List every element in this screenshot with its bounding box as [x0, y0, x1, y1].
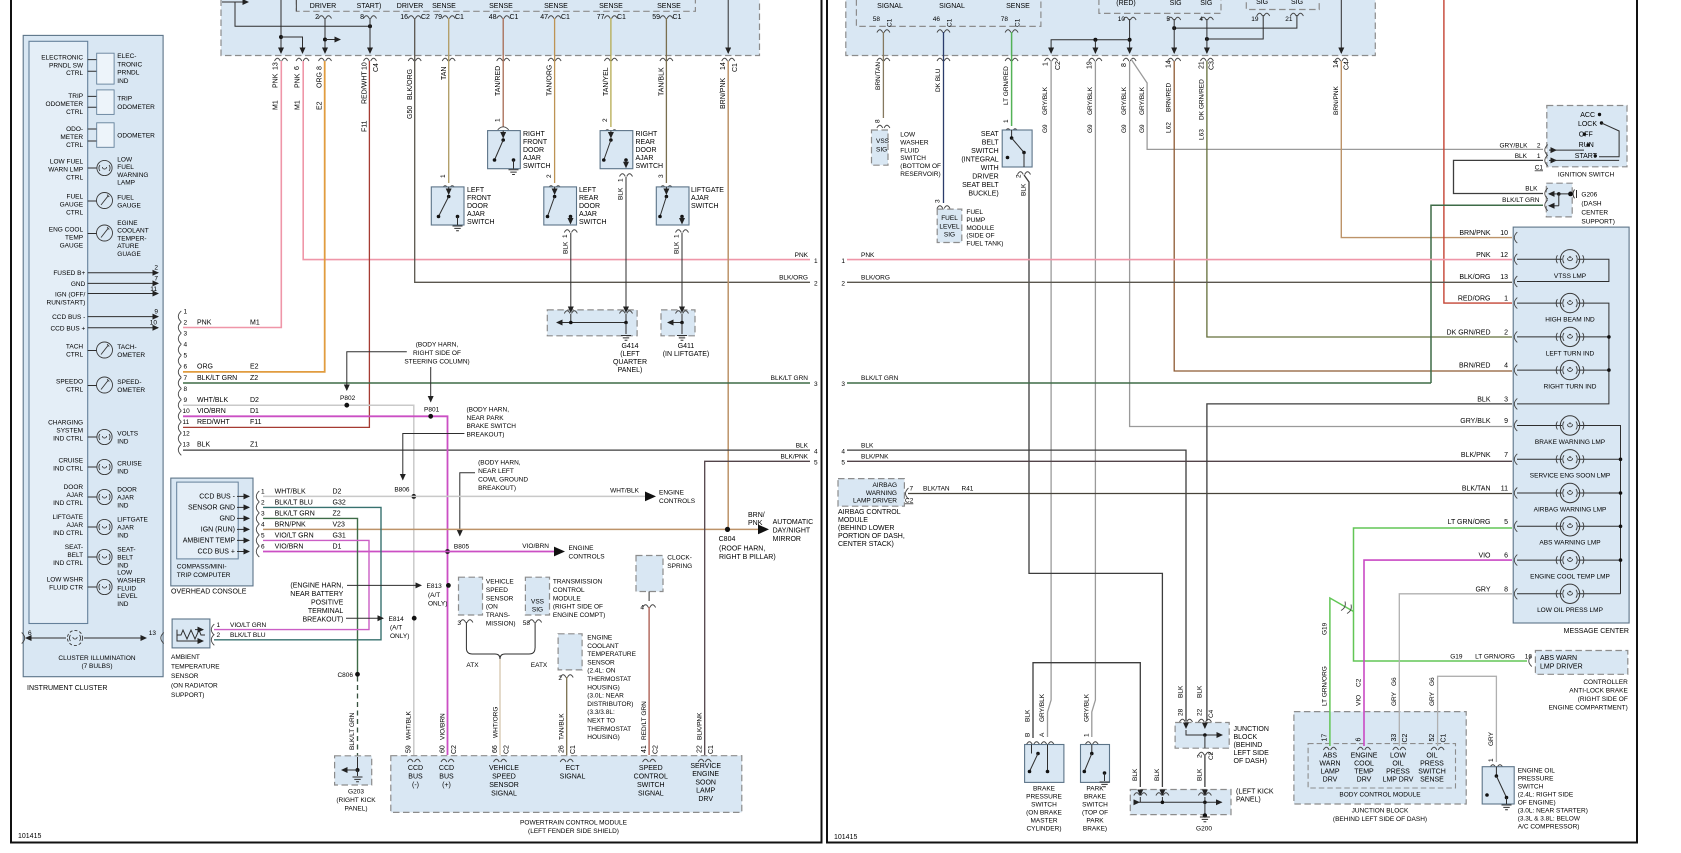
svg-text:RUN/START): RUN/START) — [47, 299, 86, 306]
svg-text:BLK: BLK — [1025, 709, 1032, 722]
svg-text:F11: F11 — [250, 419, 262, 426]
svg-text:C1: C1 — [617, 14, 626, 21]
svg-text:1: 1 — [184, 309, 188, 316]
svg-text:C2: C2 — [504, 745, 511, 754]
cluster row: engine coolant temperature gauge — [49, 220, 149, 258]
svg-text:MODULE: MODULE — [838, 517, 868, 524]
svg-text:ANTI-LOCK BRAKE: ANTI-LOCK BRAKE — [1569, 688, 1628, 695]
svg-text:GRY: GRY — [1429, 691, 1436, 706]
cluster row: tachometer — [66, 342, 146, 359]
svg-text:ODOMETER: ODOMETER — [46, 101, 84, 108]
svg-text:FRONT: FRONT — [523, 139, 548, 146]
cluster row: low fuel warning lamp — [48, 157, 148, 187]
lamp brake warning — [1517, 426, 1621, 594]
svg-text:ONLY): ONLY) — [390, 633, 409, 640]
svg-text:TRANSMISSION: TRANSMISSION — [553, 579, 603, 586]
svg-text:SWITCH: SWITCH — [637, 782, 665, 789]
svg-text:(2.4L: ON: (2.4L: ON — [587, 668, 615, 675]
svg-text:LIFTGATE: LIFTGATE — [53, 514, 84, 521]
svg-text:VSS: VSS — [531, 599, 545, 606]
svg-text:BELT: BELT — [117, 554, 133, 561]
svg-text:E2: E2 — [317, 101, 324, 110]
svg-text:BLK/PNK: BLK/PNK — [781, 454, 809, 461]
svg-text:BLK: BLK — [1021, 183, 1028, 196]
svg-text:12: 12 — [1500, 252, 1508, 259]
svg-text:GRY/BLK: GRY/BLK — [1042, 86, 1049, 115]
svg-text:(BEHIND: (BEHIND — [1234, 742, 1263, 749]
node C804 — [725, 527, 730, 532]
svg-text:E813: E813 — [427, 583, 443, 590]
svg-text:TAN/RED: TAN/RED — [495, 66, 502, 96]
svg-text:SIG: SIG — [944, 232, 955, 239]
svg-text:WITH: WITH — [981, 165, 999, 172]
svg-text:C1: C1 — [510, 14, 519, 21]
svg-text:1: 1 — [618, 178, 625, 182]
svg-text:G31: G31 — [333, 533, 346, 540]
cluster row: cruise ind — [53, 458, 142, 476]
svg-text:COOLANT: COOLANT — [117, 228, 148, 235]
svg-text:RIGHT: RIGHT — [523, 131, 546, 138]
svg-text:C4: C4 — [1344, 61, 1351, 70]
message center — [1513, 227, 1629, 635]
svg-text:LT GRN/ORG: LT GRN/ORG — [1322, 666, 1329, 706]
wire BRN/TAN (U2 pin58 to low washer fluid switch) — [882, 32, 884, 118]
svg-text:FUEL: FUEL — [941, 215, 958, 222]
svg-text:BLK: BLK — [1515, 153, 1528, 160]
svg-text:ENGINE COOL TEMP LMP: ENGINE COOL TEMP LMP — [1530, 574, 1610, 581]
wire labels on verticals — [273, 65, 728, 132]
svg-text:41: 41 — [641, 745, 648, 753]
svg-text:B805: B805 — [454, 544, 470, 551]
svg-text:ENGINE: ENGINE — [692, 771, 719, 778]
wire internal U2 BRN/PNK feed — [1340, 0, 1342, 53]
svg-text:FRONT: FRONT — [467, 195, 492, 202]
svg-text:Z1: Z1 — [250, 442, 258, 449]
svg-text:CENTER STACK): CENTER STACK) — [838, 541, 894, 548]
svg-text:PARK: PARK — [1086, 818, 1104, 825]
svg-text:VSS: VSS — [876, 138, 890, 145]
svg-text:CTRL: CTRL — [66, 142, 83, 149]
svg-text:2: 2 — [154, 265, 158, 272]
svg-text:5: 5 — [841, 460, 845, 467]
svg-text:17: 17 — [1322, 734, 1329, 742]
ground G206 — [1502, 183, 1615, 225]
svg-text:LOW OIL PRESS LMP: LOW OIL PRESS LMP — [1537, 607, 1603, 614]
svg-text:CONTROL: CONTROL — [634, 774, 668, 781]
lamp service eng soon — [1517, 458, 1621, 460]
svg-text:LAMP: LAMP — [1320, 769, 1339, 776]
svg-text:CLOCK-: CLOCK- — [667, 555, 692, 562]
svg-text:WASHER: WASHER — [117, 577, 146, 584]
svg-text:SENSE: SENSE — [599, 3, 623, 10]
svg-text:LIFTGATE: LIFTGATE — [691, 187, 724, 194]
svg-text:TRONIC: TRONIC — [117, 61, 142, 68]
switch S1 right front door ajar — [488, 118, 551, 175]
wire BLK/LT GRN (row3 up to G206) — [1431, 205, 1543, 383]
svg-text:2: 2 — [814, 281, 818, 288]
svg-text:TAN/ORG: TAN/ORG — [547, 65, 554, 96]
body control module — [1294, 712, 1466, 823]
vehicle speed sensor — [457, 577, 515, 627]
wire BLK/PNK (PCM pin22 C1 up to right edge row5) — [705, 461, 810, 755]
wire GRY/BLK G9 #1 (U2 to brake pressure switch pin A) — [1048, 61, 1052, 737]
compass connector pins 1-6 — [256, 489, 265, 558]
brake pressure switch — [1025, 693, 1064, 832]
svg-text:SPEED: SPEED — [492, 774, 516, 781]
compass pin row labels — [275, 489, 346, 551]
svg-text:TRANS-: TRANS- — [486, 612, 510, 619]
svg-text:MODULE: MODULE — [966, 225, 994, 232]
svg-text:14: 14 — [720, 62, 727, 70]
svg-text:LAMP DRIVER: LAMP DRIVER — [853, 498, 897, 505]
svg-text:BLK: BLK — [1525, 186, 1538, 193]
svg-text:TRIP: TRIP — [68, 93, 83, 100]
svg-text:ABS WARN: ABS WARN — [1540, 655, 1577, 662]
wire internal U2 pin21 to pin5 drop — [1174, 15, 1297, 28]
svg-text:C1: C1 — [1535, 165, 1544, 172]
wire internal U2 pin10 bus — [1129, 19, 1131, 53]
svg-text:TAN/BLK: TAN/BLK — [659, 67, 666, 96]
svg-text:F11: F11 — [362, 120, 369, 132]
svg-text:IGN (RUN): IGN (RUN) — [201, 527, 235, 534]
svg-text:48: 48 — [489, 14, 497, 21]
wire PNK (row1 to message center pin12) — [847, 259, 1512, 261]
svg-text:(ON RADIATOR: (ON RADIATOR — [171, 683, 218, 690]
svg-text:5: 5 — [814, 460, 818, 467]
cluster row: seat belt ind — [53, 544, 135, 569]
svg-text:BLK: BLK — [1132, 768, 1139, 781]
svg-text:SENSOR: SENSOR — [171, 673, 199, 680]
svg-text:4: 4 — [640, 605, 644, 612]
svg-text:1: 1 — [562, 234, 569, 238]
junction block (behind left side of dash) — [1175, 685, 1269, 765]
svg-text:SIGNAL: SIGNAL — [638, 791, 664, 798]
message center pin labels — [1447, 230, 1509, 593]
svg-text:CCD: CCD — [439, 765, 454, 772]
svg-text:COOLANT: COOLANT — [587, 643, 618, 650]
svg-text:(ROOF HARN,: (ROOF HARN, — [719, 546, 765, 553]
right page left edge row tags 1-5 — [841, 252, 898, 467]
U2 pin 19 — [1251, 13, 1269, 23]
svg-text:AJAR: AJAR — [66, 492, 83, 499]
svg-text:AUTOMATIC: AUTOMATIC — [773, 519, 814, 526]
svg-text:GRY: GRY — [1475, 586, 1490, 593]
svg-text:BELT: BELT — [982, 140, 1000, 147]
svg-text:POSITIVE: POSITIVE — [311, 600, 344, 607]
svg-text:BRN/PNK: BRN/PNK — [1459, 230, 1490, 237]
svg-text:BLK/TAN: BLK/TAN — [1462, 486, 1491, 493]
svg-text:1: 1 — [1043, 62, 1050, 66]
svg-text:G203: G203 — [348, 789, 364, 796]
ground G411 — [661, 306, 709, 358]
svg-text:2: 2 — [1196, 754, 1203, 758]
svg-text:19: 19 — [1251, 16, 1259, 23]
svg-text:TEMPER-: TEMPER- — [117, 235, 146, 242]
svg-text:G411: G411 — [678, 343, 695, 350]
svg-text:AIRBAG: AIRBAG — [872, 482, 897, 489]
svg-text:GRY/BLK: GRY/BLK — [1499, 143, 1528, 150]
svg-text:SWITCH: SWITCH — [691, 203, 719, 210]
svg-text:11: 11 — [150, 286, 157, 293]
svg-text:HIGH BEAM IND: HIGH BEAM IND — [1545, 317, 1595, 324]
svg-text:TACH: TACH — [66, 344, 84, 351]
svg-text:DOOR: DOOR — [579, 203, 600, 210]
svg-text:9: 9 — [1504, 418, 1508, 425]
svg-text:(+): (+) — [442, 782, 451, 789]
svg-text:TEMPERATURE: TEMPERATURE — [587, 651, 636, 658]
wire RED/ORG (from top edge to message center pin1) — [1444, 0, 1512, 303]
svg-text:3: 3 — [658, 174, 665, 178]
svg-text:(BEHIND LEFT SIDE OF DASH): (BEHIND LEFT SIDE OF DASH) — [1333, 816, 1427, 823]
wire VIO/LT GRN G31 (compass pin5 to ambient temp sensor pin1) — [214, 540, 369, 629]
wire BLK/ORG (row2 to message center pin13) — [847, 281, 1512, 283]
svg-text:14: 14 — [1333, 60, 1340, 68]
svg-text:LMP DRIVER: LMP DRIVER — [1540, 664, 1583, 671]
svg-text:C2: C2 — [451, 745, 458, 754]
svg-text:ELECTRONIC: ELECTRONIC — [41, 55, 83, 62]
cluster row: fuel gauge — [60, 193, 142, 217]
svg-text:NEAR BATTERY: NEAR BATTERY — [290, 591, 343, 598]
svg-text:DRIVER: DRIVER — [397, 3, 423, 10]
svg-text:(RIGHT SIDE OF: (RIGHT SIDE OF — [1578, 696, 1628, 703]
svg-text:10: 10 — [362, 62, 369, 70]
svg-text:G414: G414 — [621, 343, 638, 350]
svg-text:21: 21 — [1199, 61, 1206, 69]
svg-text:1: 1 — [217, 622, 221, 629]
svg-text:LEFT TURN IND: LEFT TURN IND — [1546, 350, 1595, 357]
svg-text:4: 4 — [184, 342, 188, 349]
svg-text:IND CTRL: IND CTRL — [53, 560, 83, 567]
cluster row: door ajar ind — [53, 484, 137, 509]
svg-text:ENGINE OIL: ENGINE OIL — [1518, 768, 1556, 775]
U2 pin 78 C1 — [1001, 16, 1022, 33]
svg-text:IGN (OFF/: IGN (OFF/ — [55, 292, 86, 299]
U1 pin 8 — [360, 14, 376, 21]
node P802 splice — [344, 403, 349, 408]
svg-text:46: 46 — [933, 16, 941, 23]
wire internal U2 pin19 to pin4 drop — [1207, 15, 1263, 39]
svg-text:FUEL: FUEL — [66, 194, 83, 201]
svg-text:28: 28 — [1178, 708, 1185, 716]
svg-text:10: 10 — [1118, 16, 1126, 23]
svg-text:6: 6 — [1504, 553, 1508, 560]
svg-text:LOW: LOW — [1390, 753, 1406, 760]
wire BRN/RED L62 (U2 pin14 to message center pin4) — [1174, 61, 1512, 371]
svg-text:16: 16 — [400, 14, 408, 21]
svg-text:BRAKE): BRAKE) — [1083, 826, 1107, 833]
lamp abs warning — [1517, 525, 1621, 527]
svg-text:BLK/ORG: BLK/ORG — [1459, 274, 1490, 281]
wire BLK (brake pressure switch pin B to kick panel) — [1033, 663, 1140, 787]
svg-text:LAMP: LAMP — [696, 788, 715, 795]
svg-text:SOON: SOON — [695, 779, 716, 786]
svg-text:(A/T: (A/T — [390, 625, 402, 632]
svg-text:RIGHT B PILLAR): RIGHT B PILLAR) — [719, 554, 776, 561]
svg-text:BLK/ORG: BLK/ORG — [407, 69, 414, 100]
svg-text:TRIP: TRIP — [117, 96, 132, 103]
module U2 (top connector box, right page) — [846, 0, 1376, 56]
svg-text:DRV: DRV — [1323, 777, 1338, 784]
svg-text:SYSTEM: SYSTEM — [56, 427, 83, 434]
svg-text:NEAR LEFT: NEAR LEFT — [478, 468, 514, 475]
svg-text:PRNDL: PRNDL — [117, 70, 139, 77]
svg-text:PRESS: PRESS — [1420, 761, 1444, 768]
cluster internal pin arrows: CCD BUS — [50, 309, 158, 333]
wire VSS pin3 to brace — [465, 622, 467, 648]
svg-text:SIG: SIG — [1291, 0, 1303, 6]
wire BLK right rear switch to G414 — [625, 177, 627, 306]
svg-text:3: 3 — [841, 381, 845, 388]
wire TAN/ORG (pin47 C1 to left rear door switch) — [554, 18, 556, 183]
svg-text:POWERTRAIN CONTROL MODULE: POWERTRAIN CONTROL MODULE — [520, 820, 628, 827]
svg-text:CONTROLLER: CONTROLLER — [1583, 679, 1628, 686]
cluster internal pin arrows: fused B+ 2, GND 7, IGN 11 — [47, 265, 159, 307]
svg-text:4: 4 — [814, 448, 818, 455]
svg-text:4: 4 — [1504, 363, 1508, 370]
svg-text:PANEL): PANEL) — [345, 806, 368, 813]
svg-text:SENSE: SENSE — [1006, 3, 1030, 10]
svg-text:A/C COMPRESSOR): A/C COMPRESSOR) — [1518, 824, 1580, 831]
svg-text:BLK/ORG: BLK/ORG — [779, 275, 808, 282]
svg-text:EATX: EATX — [531, 662, 548, 669]
annotation body harn right side of steering column — [347, 342, 470, 402]
wire LT GRN/RED (U2 pin78 to seat belt switch) — [1011, 32, 1013, 126]
svg-text:NEAR PARK: NEAR PARK — [467, 415, 505, 422]
svg-text:3: 3 — [261, 511, 265, 518]
svg-text:59: 59 — [652, 14, 660, 21]
svg-text:LEFT: LEFT — [579, 187, 597, 194]
svg-text:C1: C1 — [732, 63, 739, 72]
svg-text:WHT/BLK: WHT/BLK — [610, 488, 640, 495]
svg-text:(BODY HARN,: (BODY HARN, — [467, 407, 510, 414]
svg-text:TACH-: TACH- — [117, 344, 136, 351]
svg-text:13: 13 — [183, 442, 191, 449]
wire internal pin2 drop — [324, 18, 326, 53]
svg-text:D2: D2 — [250, 397, 259, 404]
wire WHT/ORG (brace to PCM pin66 C2) — [499, 659, 501, 755]
svg-text:QUARTER: QUARTER — [613, 359, 647, 366]
svg-text:6: 6 — [28, 630, 32, 637]
svg-text:6: 6 — [184, 364, 188, 371]
svg-text:SUPPORT): SUPPORT) — [1581, 219, 1614, 226]
svg-text:BLK/LT GRN: BLK/LT GRN — [771, 375, 809, 382]
wire BLK Z1 (cluster pin13 to right edge row4) — [183, 449, 810, 451]
svg-text:7: 7 — [154, 275, 158, 282]
svg-text:C1: C1 — [1441, 733, 1448, 742]
svg-text:VIO/BRN: VIO/BRN — [440, 713, 447, 740]
svg-text:GND: GND — [219, 516, 235, 523]
svg-text:8: 8 — [1121, 63, 1128, 67]
wire TAN (pin79 C1 to left front door switch) — [448, 18, 450, 183]
svg-text:(7 BULBS): (7 BULBS) — [81, 663, 112, 670]
svg-text:11: 11 — [183, 419, 190, 426]
svg-text:VIO/BRN: VIO/BRN — [197, 408, 226, 415]
svg-text:CRUISE: CRUISE — [59, 458, 84, 465]
wire RED/WHT F11 (pin10 C4 to cluster pin11) — [183, 61, 369, 427]
svg-text:SPEED: SPEED — [486, 587, 508, 594]
svg-text:REAR: REAR — [636, 139, 655, 146]
svg-text:CTRL: CTRL — [66, 209, 83, 216]
svg-text:SWITCH: SWITCH — [467, 219, 495, 226]
svg-text:4: 4 — [841, 448, 845, 455]
svg-text:START): START) — [357, 3, 382, 10]
svg-text:IND: IND — [117, 438, 129, 445]
svg-text:C1: C1 — [947, 18, 954, 27]
svg-text:BLK/PNK: BLK/PNK — [1461, 452, 1491, 459]
svg-text:SIG: SIG — [1256, 0, 1268, 6]
svg-text:R41: R41 — [962, 486, 974, 493]
svg-text:BRAKE: BRAKE — [1033, 786, 1056, 793]
svg-text:FUEL: FUEL — [966, 209, 983, 216]
svg-text:2: 2 — [1504, 329, 1508, 336]
svg-text:G206: G206 — [1581, 192, 1597, 199]
svg-text:PNK: PNK — [795, 252, 809, 259]
lamp VTSS — [1517, 259, 1609, 281]
svg-text:MIRROR: MIRROR — [773, 536, 801, 543]
svg-text:9: 9 — [184, 397, 188, 404]
svg-text:8: 8 — [317, 66, 324, 70]
right page border — [827, 0, 1637, 843]
svg-text:(3.0L: NEAR: (3.0L: NEAR — [587, 693, 624, 700]
svg-text:TAN/YEL: TAN/YEL — [603, 67, 610, 96]
svg-text:HOUSING): HOUSING) — [587, 684, 620, 691]
wire BLK (message center pin3 to junction block) — [1207, 404, 1512, 721]
svg-text:SIG: SIG — [876, 147, 887, 154]
svg-text:AJAR: AJAR — [691, 195, 709, 202]
U1 pin 59 C1 — [652, 14, 681, 21]
svg-text:26: 26 — [559, 745, 566, 753]
svg-text:WARNING: WARNING — [117, 172, 148, 179]
svg-text:LOW: LOW — [900, 132, 916, 139]
svg-text:REAR: REAR — [579, 195, 598, 202]
svg-text:GRY: GRY — [1391, 691, 1398, 706]
svg-text:A: A — [1039, 732, 1046, 737]
svg-text:BLK: BLK — [674, 241, 681, 254]
svg-text:2: 2 — [261, 500, 265, 507]
svg-text:SWITCH: SWITCH — [1418, 769, 1446, 776]
svg-text:ODOMETER: ODOMETER — [117, 104, 155, 111]
svg-text:VIO/LT GRN: VIO/LT GRN — [230, 622, 267, 629]
svg-text:47: 47 — [540, 14, 548, 21]
svg-text:CCD: CCD — [408, 765, 423, 772]
wire internal U1 top-left arrow — [222, 1, 248, 3]
svg-text:GRY/BLK: GRY/BLK — [1460, 418, 1491, 425]
wire internal U1 bus from left to pin8 drop — [235, 2, 370, 26]
svg-text:RESERVOIR): RESERVOIR) — [900, 171, 940, 178]
svg-text:GAUGE: GAUGE — [60, 242, 84, 249]
clockspring — [636, 555, 692, 612]
svg-text:CONTROL: CONTROL — [553, 587, 585, 594]
svg-text:G9: G9 — [1139, 124, 1146, 133]
module U1 (top connector box, left page) — [221, 0, 760, 56]
cluster illumination lamps — [22, 630, 164, 670]
svg-text:LAMP: LAMP — [117, 180, 135, 187]
svg-text:BRAKE: BRAKE — [1084, 794, 1107, 801]
svg-text:RED/ORG: RED/ORG — [1458, 296, 1491, 303]
svg-text:SENSOR: SENSOR — [489, 782, 519, 789]
svg-text:BLK/LT BLU: BLK/LT BLU — [275, 500, 313, 507]
svg-text:WHT/BLK: WHT/BLK — [197, 397, 228, 404]
svg-text:(ON BRAKE: (ON BRAKE — [1026, 810, 1062, 817]
cluster row: liftgate ajar ind — [53, 514, 149, 539]
svg-text:(BEHIND LOWER: (BEHIND LOWER — [838, 525, 894, 532]
svg-text:ENG COOL: ENG COOL — [49, 227, 84, 234]
node C806 — [355, 672, 360, 677]
svg-text:DOOR: DOOR — [64, 484, 84, 491]
svg-text:CTRL: CTRL — [66, 70, 83, 77]
svg-text:5: 5 — [1504, 519, 1508, 526]
svg-text:SPEED-: SPEED- — [117, 379, 141, 386]
